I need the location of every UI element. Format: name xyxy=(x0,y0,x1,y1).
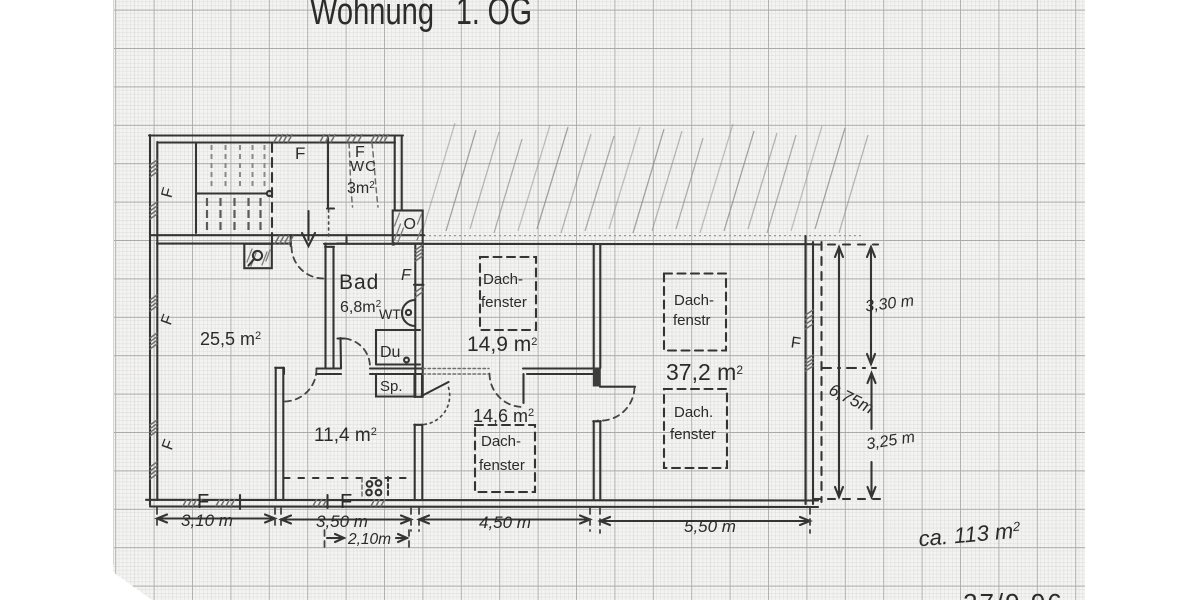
svg-text:F: F xyxy=(340,491,352,513)
stair down arrow xyxy=(302,211,315,246)
washbasin WT xyxy=(402,300,415,326)
window hatch left wall (bottom 2) xyxy=(150,462,157,479)
svg-text:fenstr: fenstr xyxy=(673,312,711,329)
dimension 3,50m xyxy=(281,512,411,531)
window hatch bottom wall 1b xyxy=(216,500,235,507)
stair handrail xyxy=(197,191,272,196)
window hatch Bad right wall (upper) xyxy=(416,245,423,261)
outer wall right xyxy=(806,236,814,504)
sink Sp box xyxy=(376,374,414,397)
svg-text:14,6 m2: 14,6 m2 xyxy=(473,406,534,426)
svg-text:25,5 m2: 25,5 m2 xyxy=(200,329,261,349)
mid wall segment c (faint) xyxy=(423,369,489,375)
svg-text:F: F xyxy=(295,144,305,163)
wall between landing and WC xyxy=(327,136,334,209)
window hatch left wall (mid 1) xyxy=(150,295,157,311)
mid wall left cap xyxy=(283,368,285,374)
door arc 25,5-to-11,4 (dashed) xyxy=(284,369,317,402)
svg-text:Du: Du xyxy=(380,344,400,361)
wall 14,9-37,2 divider upper xyxy=(594,244,601,368)
dimension 5,50m xyxy=(600,517,810,536)
door arc 37,2 room (dashed) xyxy=(598,388,635,421)
window hatch left wall (bottom 1) xyxy=(150,420,157,436)
dimension 6,75m line xyxy=(835,247,843,497)
dimension 3,30m line xyxy=(867,247,875,364)
wall stub dark (37,2 door jamb) xyxy=(593,368,601,387)
door arc 11,4 room (dotted) xyxy=(424,388,450,425)
stove symbol with burners xyxy=(362,477,388,498)
window hatch right wall (upper) xyxy=(806,310,814,329)
window sill Bad right wall xyxy=(414,284,424,286)
window hatch right wall (lower) xyxy=(806,355,814,371)
dimension 4,50m xyxy=(419,513,590,532)
dim separator dash-dot middle xyxy=(822,367,876,369)
mid wall segment a xyxy=(317,369,342,375)
door leaf 14,6 room xyxy=(522,374,524,403)
shower drain circle xyxy=(404,358,409,363)
window jamb tick bottom 1 xyxy=(239,495,241,509)
Bad door arc (dashed) xyxy=(345,339,370,368)
svg-text:6,8m2: 6,8m2 xyxy=(340,299,382,316)
roof line dashed curve in WC xyxy=(349,143,353,207)
window hatch top wall (WC right) xyxy=(371,135,388,143)
dachfenster box (14,9) xyxy=(480,257,536,330)
wall 11,4 room left xyxy=(275,368,284,501)
hall door arc (dashed) xyxy=(292,247,324,279)
svg-text:37,2 m2: 37,2 m2 xyxy=(666,359,743,385)
mid wall segment d xyxy=(523,369,600,375)
svg-text:3,10 m: 3,10 m xyxy=(181,511,233,530)
dachfenster box lower (37,2) xyxy=(664,389,727,468)
chimney block O (upper) xyxy=(391,211,422,246)
window hatch bottom wall 2a xyxy=(313,500,327,507)
main wall lower line xyxy=(157,243,812,246)
door arc 14,6 room (dashed) xyxy=(490,374,523,408)
window jamb tick bottom 2 xyxy=(326,495,328,508)
window hatch left wall (top 2) xyxy=(150,202,157,219)
stairwell open-side dashed line xyxy=(271,143,273,246)
main wall upper line xyxy=(150,234,424,236)
window hatch top wall (mid) xyxy=(320,135,335,143)
window hatch left wall (mid 2) xyxy=(150,333,157,349)
mid wall segment b xyxy=(370,369,423,375)
svg-text:Sp.: Sp. xyxy=(380,378,403,395)
window hatch bottom wall 1a xyxy=(183,500,202,507)
svg-text:fenster: fenster xyxy=(481,294,527,311)
kitchen counter dashed line xyxy=(284,477,410,479)
svg-text:Dach-: Dach- xyxy=(481,433,521,450)
wall Bad top-left jog xyxy=(337,237,347,244)
svg-text:O: O xyxy=(404,216,416,233)
dimension extension tick (x157) xyxy=(156,508,158,527)
roof slope boundary dotted line xyxy=(424,235,862,237)
svg-text:1. OG: 1. OG xyxy=(456,0,532,33)
window hatch Bad right wall (lower) xyxy=(416,287,423,297)
svg-text:Wohnung: Wohnung xyxy=(310,0,434,33)
svg-text:WT: WT xyxy=(379,306,401,322)
svg-text:Bad: Bad xyxy=(339,271,379,294)
dimension 3,10m xyxy=(157,511,275,530)
sink wall stub dark xyxy=(414,374,423,397)
WC open door leaf (dotted) xyxy=(328,210,330,236)
dim separator dashes top xyxy=(813,243,878,245)
svg-text:5,50 m: 5,50 m xyxy=(684,517,736,536)
svg-text:2,10m: 2,10m xyxy=(347,531,391,548)
Bad door leaf xyxy=(338,338,345,368)
window hatch near hall door xyxy=(275,236,293,244)
svg-text:3,50 m: 3,50 m xyxy=(316,512,368,531)
wall Bad left xyxy=(325,244,334,369)
dimension 3,25m line xyxy=(868,373,876,497)
chimney block with circle (lower) xyxy=(244,244,271,268)
window hatch top wall (WC left) xyxy=(347,135,362,143)
svg-text:Dach-: Dach- xyxy=(674,292,714,309)
dimension extension ticks (x590-600) xyxy=(589,508,591,531)
window hatch left wall (top 1) xyxy=(150,160,157,177)
outer wall top (stair/WC section) xyxy=(149,136,403,143)
svg-text:27/9.96: 27/9.96 xyxy=(963,588,1064,600)
roof eave dashed line xyxy=(820,242,822,502)
dachfenster box (14,6) xyxy=(475,425,535,492)
wall 14,9-37,2 divider lower xyxy=(593,421,601,500)
wall corridor right (Bad right) xyxy=(415,244,422,397)
svg-text:Dach-: Dach- xyxy=(483,271,523,288)
dimension 2,10m xyxy=(325,530,410,548)
svg-text:14,9 m2: 14,9 m2 xyxy=(467,333,537,356)
svg-text:F: F xyxy=(401,267,412,284)
outer wall left xyxy=(150,135,157,505)
wall 11,4-14,6 divider lower xyxy=(414,425,423,501)
dim separator dashes bottom xyxy=(813,498,881,500)
stairs (lower flight treads) xyxy=(207,198,261,232)
main wall hall-door jamb cap xyxy=(290,235,292,246)
door leaf 11,4 room (diagonal) xyxy=(422,382,449,396)
window hatch top wall (landing) xyxy=(274,135,292,143)
dachfenster box upper (37,2) xyxy=(664,274,726,351)
svg-text:fenster: fenster xyxy=(670,426,716,443)
svg-text:11,4 m2: 11,4 m2 xyxy=(314,425,377,446)
wall WC right (top section) xyxy=(395,136,402,210)
shower Du box xyxy=(376,330,420,365)
window hatch bottom wall 2b xyxy=(371,500,385,507)
svg-text:F: F xyxy=(197,491,209,513)
door leaf 37,2 room xyxy=(600,386,635,388)
svg-text:4,50 m: 4,50 m xyxy=(479,513,531,532)
roof slope hatching xyxy=(422,123,868,233)
svg-text:fenster: fenster xyxy=(479,457,525,474)
outer wall bottom xyxy=(146,500,818,507)
dimension extension ticks (x275-281) xyxy=(274,508,276,527)
stairs (upper flight treads) xyxy=(196,144,265,233)
dimension extension tick (x810) xyxy=(809,508,811,533)
svg-text:WC: WC xyxy=(350,158,377,175)
dimension extension ticks (x411-419) xyxy=(410,508,412,531)
svg-text:Dach.: Dach. xyxy=(674,404,713,421)
